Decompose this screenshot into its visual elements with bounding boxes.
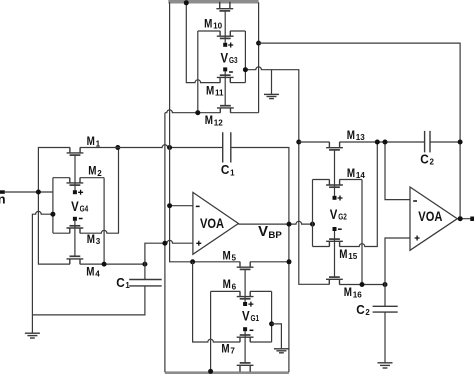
transistor M13 — [326, 142, 343, 150]
label M16 — [344, 285, 363, 299]
label VG3 — [221, 50, 238, 65]
ground VG1 — [274, 349, 289, 353]
wire VOA1 inverting input — [170, 205, 193, 207]
node VG3 right junction — [243, 67, 248, 72]
label M6 — [223, 277, 237, 291]
svg-text:7: 7 — [230, 347, 235, 356]
wire VG2 box top edge — [313, 179, 363, 181]
svg-text:M: M — [204, 17, 212, 31]
transistor M4 — [67, 256, 84, 264]
ground mid — [264, 94, 279, 98]
node C2 feedback junction — [458, 140, 463, 145]
svg-text:G3: G3 — [229, 56, 238, 65]
svg-text:M: M — [347, 128, 355, 142]
node feedback top junction — [256, 41, 261, 46]
label C2 bottom — [356, 302, 370, 317]
wire VG3 box right edge — [244, 31, 246, 83]
wire VOA2 noninverting input — [385, 238, 410, 306]
svg-text:14: 14 — [356, 171, 366, 180]
wire M13 source — [299, 141, 330, 143]
node VOA2 output junction — [458, 216, 463, 221]
svg-text:V: V — [258, 223, 268, 240]
label M12 — [205, 113, 224, 127]
svg-text:G2: G2 — [338, 212, 347, 221]
label M2 — [88, 164, 102, 178]
wire input — [5, 191, 53, 193]
battery VG1 plus terminal — [243, 302, 253, 307]
ground left — [25, 333, 40, 338]
wire VG2 box left edge — [312, 180, 314, 247]
label VG2 — [330, 207, 347, 222]
output terminal — [470, 217, 474, 222]
wire VOA2 inverting input — [385, 142, 410, 200]
label M11 — [206, 83, 224, 97]
node wire-L1 junction — [167, 145, 172, 150]
svg-text:VOA: VOA — [200, 216, 224, 231]
wire VG4 box left edge — [52, 178, 54, 234]
battery VG4 plus terminal — [73, 190, 83, 195]
wire L1 bus from top rail to M5 — [170, 2, 241, 262]
svg-text:M: M — [88, 164, 96, 178]
transistor M14 — [326, 180, 343, 188]
transistor M3 — [67, 226, 84, 233]
wire VG1 box right edge — [271, 291, 273, 342]
wire input-node vertical with M1 and M4 source wires — [38, 148, 70, 265]
node bottom rail junction — [208, 369, 213, 374]
bottom supply rail — [165, 371, 289, 374]
node input junction — [36, 190, 41, 195]
node M12-VG3 junction — [195, 110, 200, 115]
wire C1 to VBP node — [231, 148, 289, 373]
wire M13 gate to VG2 plus — [334, 150, 336, 196]
svg-text:4: 4 — [95, 270, 100, 279]
wire C1 left bottom lead to ground — [32, 286, 144, 315]
wire M5 drain — [250, 261, 289, 263]
svg-text:2: 2 — [97, 169, 102, 178]
transistor M10 — [217, 31, 234, 38]
label M13 — [347, 128, 366, 142]
capacitor C2 top — [425, 131, 430, 153]
node M5 source junction — [190, 259, 195, 264]
svg-text:M: M — [87, 232, 95, 246]
wire M14 drain down to M16 — [361, 180, 363, 285]
transistor M12 — [217, 106, 234, 113]
svg-text:C: C — [221, 162, 230, 177]
wire M13 drain to C2 — [339, 141, 424, 143]
wire VOA1 output with hop — [238, 221, 312, 224]
label C1 top — [221, 162, 235, 177]
transistor M6 — [237, 291, 254, 298]
battery VG2 minus terminal — [333, 227, 342, 231]
label VG4 — [71, 199, 88, 214]
capacitor C2 bottom — [373, 306, 398, 312]
wire M4 drain — [80, 263, 145, 265]
label M15 — [339, 247, 358, 261]
svg-text:2: 2 — [430, 158, 435, 167]
label M4 — [86, 265, 100, 279]
wire C2 to feedback node — [430, 141, 460, 143]
svg-text:C: C — [356, 302, 365, 317]
svg-text:V: V — [242, 309, 250, 324]
transistor M1 — [67, 148, 84, 156]
wire VG1 box left edge — [210, 291, 212, 371]
svg-text:3: 3 — [96, 237, 101, 246]
svg-text:M: M — [221, 341, 229, 355]
node M4-VG4 junction — [102, 262, 107, 267]
transistor M15 — [326, 239, 343, 246]
label M1 — [87, 134, 101, 148]
svg-text:V: V — [71, 199, 79, 214]
transistor M5 — [237, 262, 254, 270]
wire VG1 box top edge — [211, 290, 272, 292]
svg-text:13: 13 — [356, 133, 366, 142]
wire M1 drain to C1 with hop — [80, 145, 223, 148]
ground C2 — [378, 363, 393, 368]
wire M12 drain — [230, 112, 258, 114]
wire VG4 box top edge — [53, 177, 104, 179]
svg-text:G4: G4 — [80, 205, 89, 214]
wire top-right feedback vertical — [258, 2, 260, 112]
label C1 left — [116, 275, 130, 290]
node M16-C2 junction — [383, 282, 388, 287]
svg-text:M: M — [205, 113, 213, 127]
svg-text:M: M — [206, 83, 214, 97]
wire M16 drain — [339, 284, 385, 286]
wire M12 source with hop over L1 — [165, 110, 221, 113]
svg-text:M: M — [86, 265, 94, 279]
svg-text:1: 1 — [230, 168, 235, 177]
svg-text:1: 1 — [125, 281, 130, 290]
svg-text:V: V — [221, 50, 229, 65]
node M13 source junction — [296, 140, 301, 145]
svg-text:G1: G1 — [251, 314, 260, 323]
wire feedback top horizontal — [259, 43, 461, 219]
transistor M7 — [237, 335, 254, 342]
node M1 drain junction — [115, 145, 120, 150]
label VG1 — [242, 309, 259, 324]
node C1 junction — [142, 262, 147, 267]
transistor M9 top — [216, 2, 233, 11]
capacitor C1 left — [129, 280, 162, 286]
wire VG3 minus to M11 M12 gates — [224, 71, 226, 105]
svg-text:10: 10 — [213, 22, 223, 31]
node VOA1 noninverting junction — [162, 241, 167, 246]
svg-text:M: M — [339, 247, 347, 261]
battery VG4 minus terminal — [73, 217, 83, 221]
node M5 drain junction — [287, 259, 292, 264]
node VG2 box left junction — [310, 222, 315, 227]
op-amp VOA1 — [193, 192, 239, 254]
node M13 feedback junction — [375, 140, 380, 145]
op-amp VOA2 — [410, 187, 457, 250]
svg-text:6: 6 — [232, 282, 237, 291]
wire ground left with hop — [32, 211, 53, 333]
battery VG1 minus terminal — [243, 327, 253, 331]
wire M5 gate to VG1 plus — [244, 269, 246, 302]
label M5 — [223, 248, 237, 262]
label M3 — [87, 232, 101, 246]
wire VG3 left bus — [186, 2, 220, 82]
wire VG4 box bottom edge with hop to M1 drain node — [53, 148, 119, 234]
wire M7 source with hop — [193, 262, 241, 342]
wire VG1 ground — [272, 324, 282, 349]
svg-text:C: C — [420, 152, 429, 167]
svg-text:5: 5 — [232, 254, 237, 263]
transistor M11 — [217, 75, 234, 82]
node top rail junction — [184, 0, 189, 5]
wire VG1 minus to M7 M8 gates — [244, 331, 246, 363]
label M14 — [347, 166, 366, 180]
node VOA1 output junction — [287, 222, 292, 227]
wire VG2 minus to M15 M16 gates — [334, 231, 336, 277]
wire L2 bus from M12 to bottom rail — [164, 113, 166, 373]
svg-text:BP: BP — [268, 230, 282, 241]
svg-text:VOA: VOA — [418, 209, 442, 224]
transistor M2 — [67, 178, 84, 185]
svg-text:15: 15 — [348, 252, 358, 261]
battery VG3 minus terminal — [223, 67, 233, 72]
wire mid ground stem — [271, 70, 273, 95]
node M16-M14 junction — [360, 282, 365, 287]
top supply rail — [168, 0, 258, 4]
wire VG3 box top edge — [198, 30, 246, 32]
wire M9 gate to VG3 plus — [224, 11, 226, 43]
label M10 — [204, 17, 223, 31]
transistor M16 — [326, 277, 343, 284]
svg-text:11: 11 — [215, 89, 224, 98]
wire VG1 box bottom right — [250, 341, 272, 343]
node VG1 ground junction — [269, 321, 274, 326]
svg-text:M: M — [344, 285, 352, 299]
node VOA1 inverting junction — [167, 203, 172, 208]
capacitor C1 top — [223, 132, 231, 162]
svg-text:12: 12 — [214, 118, 224, 127]
svg-text:C: C — [116, 275, 125, 290]
svg-text:M: M — [87, 134, 95, 148]
wire M1 gate to VG4 plus — [74, 155, 76, 190]
svg-text:M: M — [223, 248, 231, 262]
node VG4 left ground junction — [50, 212, 55, 217]
node VOA2 inverting junction — [383, 140, 388, 145]
wire VG2 box bottom with hop to feedback — [313, 142, 378, 247]
svg-text:n: n — [0, 191, 6, 206]
wire VOA1 noninverting input with hop over L1 — [145, 240, 193, 264]
label VBP — [258, 223, 282, 241]
wire C1 left top lead — [144, 264, 146, 279]
battery VG2 plus terminal — [333, 196, 343, 201]
svg-text:2: 2 — [365, 308, 370, 317]
wire VG3 minus node with hop to mid ground — [245, 67, 329, 284]
wire VOA2 output — [457, 218, 474, 220]
svg-text:M: M — [223, 277, 231, 291]
svg-text:V: V — [330, 207, 338, 222]
wire VG3 box left edge — [197, 31, 199, 113]
svg-text:M: M — [347, 166, 355, 180]
input terminal Vin — [0, 190, 6, 206]
wire VG4 minus to M3 M4 gates — [74, 221, 76, 256]
battery VG3 plus terminal — [223, 43, 233, 48]
wire VG4 box right edge — [103, 178, 105, 264]
transistor M8 bottom — [237, 363, 254, 372]
wire C2 bottom to ground — [384, 312, 386, 362]
label M7 — [221, 341, 235, 355]
label C2 top — [420, 152, 434, 167]
wire VG3 box bottom right — [230, 82, 245, 84]
svg-text:16: 16 — [353, 290, 363, 299]
